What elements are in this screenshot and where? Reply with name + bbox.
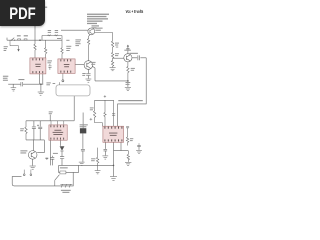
svg-text:Vcc + 8 volts: Vcc + 8 volts — [126, 9, 144, 15]
